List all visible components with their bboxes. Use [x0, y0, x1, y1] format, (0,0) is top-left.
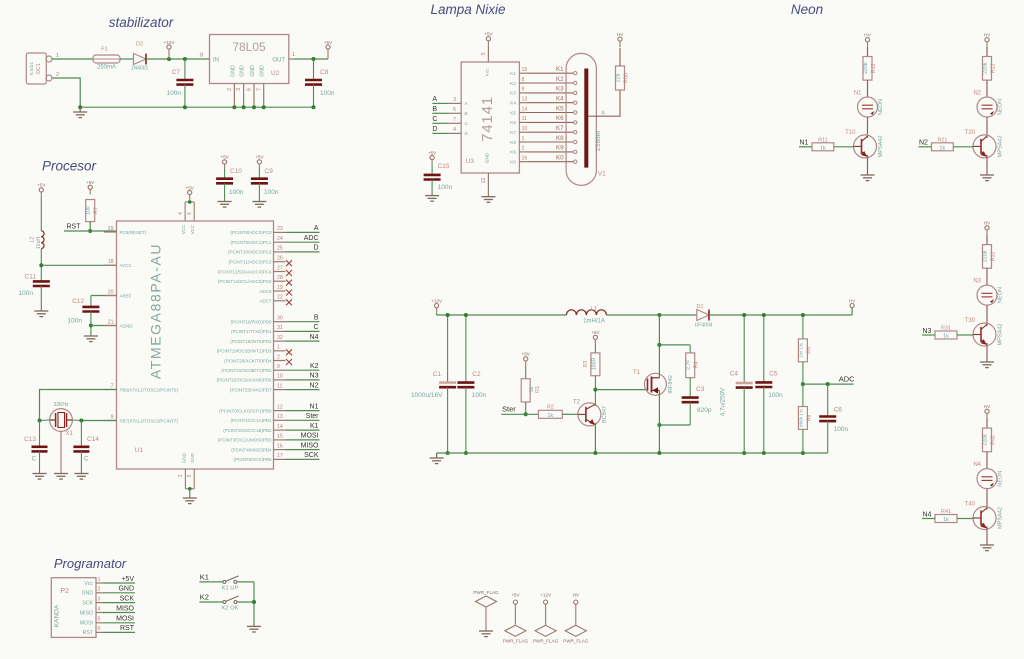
wire nixie anode to R50 [589, 90, 621, 116]
svg-text:HV: HV [573, 593, 580, 598]
svg-text:17: 17 [277, 453, 283, 459]
svg-text:D2: D2 [136, 42, 143, 48]
ground (C13) [33, 474, 47, 480]
svg-text:2: 2 [56, 72, 59, 78]
P2 pin 2 GND net GND [81, 586, 135, 597]
U1 right pin 15 (PCINT3/OC2A/MOSI)PB3 net MOSI [218, 433, 320, 443]
IC U3 74141 [461, 62, 519, 173]
U1 right pin 27 (PCINT12/SDA/ADC4)PC4 no-connect [217, 265, 292, 276]
U1 right pin 30 (PCINT16/RXD)PD0 net B [230, 315, 319, 325]
PWR_FLAG (HV) [563, 593, 589, 644]
U1 right pin 26 (PCINT11/ADC3)PC3 no-connect [228, 256, 292, 267]
svg-text:1000u/16V: 1000u/16V [411, 392, 443, 399]
svg-text:6: 6 [98, 626, 101, 632]
svg-text:1: 1 [277, 345, 280, 351]
svg-text:866k 1%: 866k 1% [798, 409, 803, 427]
net label N3 [922, 328, 935, 335]
svg-text:(PCINT2/SS/OC1B)PB2: (PCINT2/SS/OC1B)PB2 [223, 428, 272, 433]
power symbol +5V (U3) [484, 32, 493, 46]
svg-text:220k: 220k [983, 62, 989, 74]
svg-text:(PCINT4/MISO)PB4: (PCINT4/MISO)PB4 [231, 447, 272, 452]
wire R2 to T2 base [562, 413, 578, 415]
power symbol +12V (boost in) [431, 298, 443, 312]
resistor R2 1k [539, 405, 563, 419]
switch K2 (K2 OK) [199, 593, 254, 612]
pin 1 of U2 [289, 52, 295, 59]
svg-text:ADC7: ADC7 [259, 299, 272, 304]
svg-text:K7: K7 [510, 130, 516, 136]
svg-text:T30: T30 [965, 318, 976, 324]
svg-text:14: 14 [522, 106, 528, 112]
svg-text:GND: GND [260, 65, 266, 77]
svg-text:C8: C8 [320, 69, 329, 76]
U1 left pin 20 AREF [104, 289, 132, 298]
svg-text:R6: R6 [806, 415, 812, 422]
neon lamp N3 NEON [973, 279, 1003, 306]
wire U1 pin7 to crystal X1 [40, 390, 117, 421]
capacitor C9 100n [251, 155, 279, 202]
svg-text:6: 6 [187, 212, 193, 215]
svg-text:R1: R1 [535, 386, 541, 393]
U3 input pin 3 A [432, 96, 468, 107]
svg-text:12: 12 [481, 178, 487, 184]
svg-text:11: 11 [277, 383, 282, 389]
junctions on ground bus [78, 105, 315, 109]
svg-text:C4: C4 [730, 371, 739, 378]
wire emitter of T40 to ground [986, 527, 988, 546]
svg-text:1M 1%: 1M 1% [798, 342, 804, 358]
P2 pin 5 MOSI net MOSI [80, 616, 135, 627]
junction C5 top [762, 313, 766, 317]
svg-text:R50: R50 [624, 73, 630, 83]
svg-text:29: 29 [108, 226, 114, 232]
svg-text:2: 2 [98, 587, 101, 593]
U3 VCC pin 5 [481, 46, 489, 62]
svg-text:U1: U1 [135, 447, 144, 454]
ground (PWR_FLAG) [479, 631, 493, 637]
svg-text:RST: RST [67, 224, 82, 231]
svg-text:C12: C12 [72, 298, 84, 305]
resistor R1 1k [521, 366, 541, 402]
svg-text:3: 3 [98, 596, 101, 602]
U3 output pin 1 K8 to nixie [510, 135, 577, 146]
resistor R4 2,7k [686, 353, 700, 378]
inductor L1 1mH/1A [566, 306, 606, 325]
wire R50 to HV [619, 48, 621, 66]
svg-text:MPSA42: MPSA42 [998, 135, 1004, 157]
junctions bottom rail [593, 451, 805, 455]
U1 right pin 25 (PCINT10/ADC2)PC2 net D [228, 245, 320, 255]
svg-text:AREF: AREF [120, 293, 132, 298]
svg-text:100n: 100n [438, 184, 453, 191]
power symbol HV (N1 driver) [864, 33, 871, 47]
svg-text:N1: N1 [800, 140, 809, 147]
svg-text:220k: 220k [863, 62, 869, 74]
svg-text:16: 16 [277, 443, 283, 449]
svg-text:7: 7 [453, 117, 456, 123]
svg-text:T10: T10 [845, 130, 856, 136]
wire R12 to neon N1 [867, 80, 869, 97]
svg-text:R41: R41 [941, 509, 951, 515]
svg-text:Lampa Nixie: Lampa Nixie [430, 2, 505, 17]
svg-text:1k: 1k [940, 145, 946, 151]
wire crystal case to ground [60, 431, 62, 473]
svg-text:+5V: +5V [324, 40, 333, 45]
svg-text:100n: 100n [768, 392, 783, 399]
svg-text:MPSA42: MPSA42 [998, 507, 1004, 529]
P2 pin 1 Vcc net +5V [84, 576, 135, 587]
junction T1 drain at rail [657, 313, 661, 317]
svg-text:K4: K4 [556, 96, 564, 103]
svg-text:GND: GND [250, 65, 256, 77]
svg-text:GND: GND [484, 152, 490, 163]
svg-text:AGND: AGND [120, 323, 134, 328]
U3 GND pin 12 [481, 173, 489, 197]
junction C7 top [183, 57, 187, 61]
capacitor C14 C [73, 436, 99, 474]
svg-text:13: 13 [277, 414, 283, 420]
svg-text:1: 1 [292, 52, 295, 58]
svg-text:UF4004: UF4004 [695, 323, 713, 329]
svg-text:220k: 220k [983, 250, 989, 262]
svg-text:14: 14 [277, 424, 283, 430]
svg-text:PC6(RESET): PC6(RESET) [120, 230, 147, 235]
ground (C9) [252, 202, 266, 208]
svg-text:25: 25 [277, 246, 283, 252]
wire neon to transistor T30 [986, 305, 988, 326]
svg-text:HV: HV [617, 32, 624, 37]
svg-text:+5V: +5V [86, 180, 95, 185]
svg-text:K0: K0 [556, 155, 564, 162]
svg-text:C9: C9 [265, 168, 274, 175]
svg-text:C7: C7 [172, 69, 181, 76]
svg-text:Z566M: Z566M [595, 131, 602, 151]
svg-text:24: 24 [277, 236, 283, 242]
U3 output pin 14 K5 to nixie [510, 105, 577, 116]
P2 pin 4 MISO net MISO [80, 605, 135, 616]
nixie tube V1 Z566M [566, 53, 606, 185]
net label ADC [803, 375, 855, 385]
svg-text:250mA: 250mA [97, 65, 116, 71]
svg-text:+12V: +12V [540, 593, 552, 598]
U2 GND pins 2 3 6 7 [227, 84, 264, 108]
pin 8 of U2 [200, 53, 210, 60]
svg-text:D: D [432, 126, 437, 133]
resistor R32 220k [983, 245, 997, 269]
wire R32 to neon N3 [986, 268, 988, 285]
svg-text:PWR_FLAG: PWR_FLAG [563, 639, 589, 644]
U1 right pin 22 ADC7 no-connect [259, 295, 292, 306]
svg-text:(PCINT17/TXD)PD1: (PCINT17/TXD)PD1 [231, 329, 272, 334]
svg-text:C: C [313, 324, 318, 331]
ground (C15) [425, 196, 439, 202]
junction crystal left [38, 419, 42, 423]
U3 input pin 6 B [432, 106, 467, 117]
svg-text:7: 7 [256, 88, 262, 91]
junction RST node [88, 229, 92, 233]
U1 right pin 9 (PCINT21/OC0B/T1)PD5 net K2 [221, 363, 319, 373]
svg-text:HV: HV [984, 404, 991, 409]
transistor T40 MPSA42 [965, 502, 1004, 530]
svg-text:GND: GND [230, 65, 236, 77]
svg-text:23: 23 [277, 226, 283, 232]
svg-text:D: D [465, 131, 469, 137]
svg-text:K7: K7 [556, 125, 564, 132]
power symbol +5V (RST pullup) [86, 180, 95, 194]
svg-text:K2: K2 [200, 593, 209, 602]
svg-text:P2: P2 [60, 588, 69, 595]
wire snubber top [659, 345, 690, 353]
power symbol HV (N2 driver) [984, 33, 991, 47]
svg-text:5: 5 [481, 52, 487, 55]
svg-text:R7: R7 [94, 207, 100, 214]
svg-text:ADC: ADC [839, 375, 855, 384]
svg-text:R11: R11 [818, 137, 828, 143]
junction C4 top [742, 313, 746, 317]
U1 right pin 12 (PCINT0/CLKO/ICP1)PB0 net N1 [219, 403, 319, 413]
svg-text:Neon: Neon [791, 2, 823, 17]
svg-text:C14: C14 [87, 436, 99, 443]
svg-text:(PCINT12/SDA/ADC4)PC4: (PCINT12/SDA/ADC4)PC4 [217, 269, 272, 274]
ground (X1 case) [54, 474, 68, 480]
svg-text:C11: C11 [25, 273, 37, 280]
svg-text:(PCINT3/OC2A/MOSI)PB3: (PCINT3/OC2A/MOSI)PB3 [218, 438, 272, 443]
svg-text:C10: C10 [230, 168, 242, 175]
junction ADC node [801, 382, 805, 386]
svg-text:K5: K5 [556, 105, 564, 112]
svg-text:Procesor: Procesor [42, 159, 97, 174]
svg-text:+12V: +12V [431, 298, 443, 303]
svg-text:31: 31 [277, 325, 283, 331]
svg-text:+5V: +5V [220, 155, 229, 160]
wire R31 to base of T30 [957, 334, 973, 336]
wire neon to transistor T10 [867, 117, 869, 138]
power symbol HV (nixie anode) [617, 32, 624, 47]
capacitor C4 4,7u/250V [720, 315, 753, 453]
capacitor C1 1000u/16V [411, 315, 456, 453]
svg-text:+5V: +5V [522, 352, 531, 357]
svg-text:4: 4 [98, 606, 101, 612]
svg-text:+5V: +5V [484, 32, 493, 37]
junction C8 top [312, 57, 316, 61]
ground bus (stabilizator) [80, 106, 313, 108]
svg-text:+5V: +5V [186, 185, 195, 190]
svg-text:R12: R12 [871, 63, 877, 73]
svg-text:+5V: +5V [121, 576, 134, 583]
ground (boost) [430, 453, 444, 464]
wire HV to R22 [986, 47, 988, 57]
wire D2 to 78L05 IN [146, 58, 210, 60]
svg-text:6: 6 [247, 88, 253, 91]
svg-text:NEON: NEON [998, 471, 1004, 487]
U3 output pin 13 K4 to nixie [510, 96, 577, 107]
svg-text:(PCINT0/CLKO/ICP1)PB0: (PCINT0/CLKO/ICP1)PB0 [219, 408, 272, 413]
svg-text:1k: 1k [943, 334, 949, 340]
switch K1 (K1 UP) [199, 573, 254, 592]
fuse F1 250mA [93, 47, 120, 71]
svg-text:K8: K8 [556, 135, 564, 142]
wire R42 to neon N4 [986, 452, 988, 469]
svg-text:C2: C2 [472, 371, 481, 378]
svg-text:C15: C15 [438, 163, 450, 170]
capacitor C2 100n [457, 315, 486, 453]
U1 left pin 18 AVCC [104, 259, 132, 268]
wire L2 to AVCC [40, 249, 42, 282]
capacitor C7 100n [167, 59, 194, 107]
svg-text:K4: K4 [510, 101, 516, 107]
svg-text:R5: R5 [806, 347, 812, 354]
resistor R12 220k [863, 57, 877, 81]
power symbol HV (boost out) [849, 298, 856, 307]
power symbol +5V (stab out) [324, 40, 333, 59]
svg-text:OUT: OUT [272, 58, 285, 64]
U1 right pin 17 (PCINT5/SCK)PB5 net SCK [233, 452, 319, 462]
svg-text:1mH/1A: 1mH/1A [583, 319, 605, 325]
svg-text:1: 1 [522, 136, 525, 142]
svg-text:B: B [432, 106, 437, 113]
resistor R7 10k [86, 200, 100, 222]
svg-text:2: 2 [522, 146, 525, 152]
svg-text:K2: K2 [556, 76, 564, 83]
svg-text:C: C [465, 121, 469, 127]
svg-text:32KHz: 32KHz [53, 402, 69, 408]
svg-text:(PCINT5/SCK)PB5: (PCINT5/SCK)PB5 [233, 457, 272, 462]
wire emitter of T20 to ground [986, 155, 988, 175]
svg-text:D1: D1 [696, 304, 703, 310]
power symbol +12V (input) [164, 40, 176, 59]
svg-text:9: 9 [277, 364, 280, 370]
svg-text:(PCINT18/INT0)PD2: (PCINT18/INT0)PD2 [230, 339, 272, 344]
U3 output pin 16 K0 to nixie [510, 155, 577, 166]
svg-text:7: 7 [111, 383, 114, 389]
svg-text:RST: RST [120, 625, 135, 632]
svg-text:K0: K0 [510, 160, 516, 166]
ground (C12) [84, 336, 98, 342]
junction AVCC node [39, 263, 43, 267]
svg-text:8: 8 [522, 77, 525, 83]
transistor T1 IRF840 (MOSFET) [633, 370, 674, 395]
svg-text:V1: V1 [598, 171, 606, 178]
svg-text:28: 28 [277, 275, 283, 281]
U3 input pin 7 C [432, 116, 468, 127]
svg-text:(PCINT13/SCL/ADC5)PC5: (PCINT13/SCL/ADC5)PC5 [218, 279, 272, 284]
resistor R42 220k [983, 428, 997, 452]
svg-text:Ster: Ster [502, 405, 516, 414]
svg-text:GND: GND [181, 452, 186, 463]
crystal X1 32KHz [40, 402, 82, 437]
junctions C2 [464, 313, 468, 455]
U1 right pin 14 (PCINT2/SS/OC1B)PB2 net K1 [223, 423, 319, 433]
svg-text:N1: N1 [310, 403, 319, 410]
svg-text:(PCINT19/OC2B/INT1)PD3: (PCINT19/OC2B/INT1)PD3 [217, 349, 272, 354]
svg-text:1: 1 [98, 577, 101, 583]
svg-text:PWR_FLAG: PWR_FLAG [533, 639, 559, 644]
svg-text:GND: GND [81, 591, 93, 597]
power symbol +5V (R3) [591, 330, 600, 344]
svg-text:KANDA: KANDA [53, 604, 60, 627]
svg-text:GND: GND [118, 586, 134, 593]
wire T2 emitter to rail [594, 423, 596, 453]
svg-text:+5V: +5V [37, 183, 46, 188]
svg-text:100n: 100n [834, 426, 849, 433]
svg-text:K1: K1 [310, 423, 319, 430]
resistor R50 22k [616, 66, 630, 90]
junction Ster node [524, 412, 528, 416]
svg-text:1k: 1k [820, 145, 826, 151]
svg-text:100n: 100n [68, 318, 83, 325]
PWR_FLAG (+5V) [503, 593, 529, 644]
svg-text:N4: N4 [310, 334, 319, 341]
wire F1 to D2 [120, 58, 134, 60]
capacitor C5 100n [755, 315, 783, 453]
svg-text:K3: K3 [510, 91, 516, 97]
svg-text:R32: R32 [991, 251, 997, 261]
U1 right pin 28 (PCINT13/SCL/ADC5)PC5 no-connect [218, 275, 292, 286]
svg-text:MOSI: MOSI [301, 433, 319, 440]
neon lamp N1 NEON [854, 91, 884, 118]
svg-text:(PCINT22/OC0A/AIN0)PD6: (PCINT22/OC0A/AIN0)PD6 [216, 378, 272, 383]
svg-text:20: 20 [108, 289, 114, 295]
svg-text:X1: X1 [66, 431, 74, 437]
svg-text:22k: 22k [616, 73, 622, 82]
U1 GND pin stubs 3 5 [178, 469, 194, 498]
wire R22 to neon N2 [986, 80, 988, 97]
svg-text:BC847: BC847 [602, 406, 608, 423]
svg-text:1k: 1k [943, 517, 949, 523]
svg-text:K2: K2 [510, 81, 516, 87]
junction switches [252, 600, 256, 604]
wire R6 to bottom rail [802, 429, 804, 453]
svg-text:30: 30 [277, 316, 283, 322]
power symbol +5V (U1 VCC) [186, 185, 195, 199]
wire switches to ground [253, 582, 255, 627]
svg-text:C5: C5 [769, 371, 778, 378]
U1 left pin 21 AGND [104, 319, 133, 328]
power symbol +5V (R1) [522, 352, 531, 366]
wire T1 drain [658, 315, 660, 378]
svg-text:MPSA42: MPSA42 [998, 323, 1004, 345]
svg-text:NEON: NEON [998, 99, 1004, 115]
junction source / snubber bottom [657, 423, 661, 427]
capacitor C15 100n [424, 150, 453, 195]
svg-text:K6: K6 [556, 115, 564, 122]
U3 output pin 11 K6 to nixie [510, 115, 577, 126]
wire DC1 pin1 to fuse F1 [52, 58, 93, 60]
ground (N1 driver) [861, 175, 875, 181]
capacitor C11 100n [19, 273, 50, 311]
svg-text:K6: K6 [510, 120, 516, 126]
bottom rail (boost) [437, 452, 828, 454]
svg-text:(PCINT21/OC0B/T1)PD5: (PCINT21/OC0B/T1)PD5 [221, 368, 272, 373]
regulator U2 78L05 [210, 35, 289, 84]
capacitor C8 100n [305, 59, 335, 107]
U3 output pin 9 K3 to nixie [510, 86, 577, 97]
svg-text:K2 OK: K2 OK [221, 605, 238, 611]
svg-text:N2: N2 [919, 140, 928, 147]
svg-text:PB7(XTAL2/TOSC2/PCINT7): PB7(XTAL2/TOSC2/PCINT7) [120, 418, 179, 423]
net label RST [64, 224, 117, 232]
U3 output pin 10 K7 to nixie [510, 125, 577, 136]
wire neon to transistor T40 [986, 489, 988, 510]
inductor L2 10uH [30, 197, 45, 249]
wire AGND to U1 pin 21 [91, 325, 117, 327]
svg-text:4: 4 [453, 127, 456, 133]
section title: stabilizator [109, 15, 174, 30]
svg-text:+5V: +5V [255, 155, 264, 160]
svg-text:78L05: 78L05 [232, 40, 266, 54]
net label Ster [501, 405, 538, 415]
U1 left pin 7 PB6(XTAL1/TOSC1/PCINT6) [104, 383, 178, 392]
